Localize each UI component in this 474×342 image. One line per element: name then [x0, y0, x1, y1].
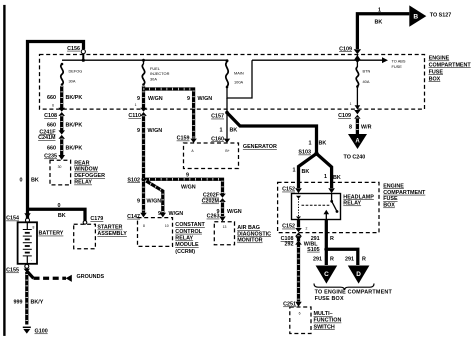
svg-text:C157: C157 [211, 114, 224, 120]
svg-text:STARTER: STARTER [97, 225, 122, 231]
svg-text:TO ABS: TO ABS [392, 58, 406, 63]
svg-text:TO S127: TO S127 [430, 13, 451, 19]
label 291 R right [345, 257, 366, 263]
wire 9 W/GN hatched C110 to S102 [137, 116, 162, 179]
connector C109 top (bowtie at fuse box edge) [339, 46, 361, 59]
svg-text:C: C [324, 271, 329, 278]
svg-text:TO C240: TO C240 [344, 155, 366, 161]
svg-text:BOX: BOX [383, 203, 395, 209]
svg-text:W/GN: W/GN [227, 209, 242, 215]
svg-text:B+: B+ [225, 149, 229, 153]
svg-text:MONITOR: MONITOR [237, 238, 262, 244]
connector C157 (junction below fuse box) [211, 111, 229, 120]
svg-text:C160: C160 [211, 136, 224, 142]
svg-text:1: 1 [220, 127, 223, 133]
svg-text:S105: S105 [307, 247, 320, 253]
svg-text:CONTROL: CONTROL [175, 229, 202, 235]
rear window defogger relay (dashed box) [50, 160, 71, 185]
svg-text:R: R [330, 257, 334, 263]
svg-text:W/GN: W/GN [148, 128, 163, 134]
svg-text:GROUNDS: GROUNDS [77, 274, 105, 280]
svg-text:RELAY: RELAY [343, 201, 361, 207]
node S103 [298, 150, 318, 156]
svg-text:(CCRM): (CCRM) [175, 249, 195, 255]
label AIR BAG DIAGNOSTIC MONITOR [237, 225, 271, 244]
svg-text:BK/PK: BK/PK [66, 95, 83, 101]
triangle A TO C240 [344, 134, 368, 161]
connector C109 bottom (bowtie below fuse box) [338, 110, 360, 119]
svg-text:C109: C109 [338, 113, 351, 119]
svg-text:BK/PK: BK/PK [66, 122, 83, 128]
svg-text:0: 0 [20, 178, 23, 184]
brace under triangles [314, 284, 374, 291]
label ENGINE COMPARTMENT FUSE BOX (top right) [429, 56, 472, 83]
svg-text:C263: C263 [207, 214, 220, 220]
svg-text:W/BL: W/BL [304, 242, 318, 248]
svg-text:CONSTANT: CONSTANT [175, 222, 205, 228]
svg-text:W/GN: W/GN [147, 199, 162, 205]
node S105 [307, 247, 328, 253]
svg-text:REAR: REAR [74, 160, 89, 166]
svg-text:8: 8 [349, 124, 352, 130]
svg-text:C108: C108 [44, 113, 57, 119]
svg-text:30: 30 [58, 165, 62, 169]
svg-text:MAIN: MAIN [234, 71, 244, 76]
svg-text:BK: BK [375, 20, 383, 26]
svg-text:W/R: W/R [361, 124, 372, 130]
label MULTI-FUNCTION SWITCH [314, 311, 342, 330]
wire fuse box internal bus [62, 59, 227, 61]
svg-text:ASSEMBLY: ASSEMBLY [97, 231, 127, 237]
wire battery positive cable (0 BK) from battery to C156 [28, 42, 84, 220]
wire TO ABS FUSE arrow [357, 57, 405, 69]
fuse FUEL INJECTOR 30A [142, 59, 170, 86]
svg-text:BOX: BOX [429, 76, 441, 82]
svg-text:GENERATOR: GENERATOR [243, 144, 277, 150]
svg-text:100A: 100A [234, 80, 243, 85]
svg-text:13: 13 [223, 225, 227, 229]
fuse BTN 40A [350, 55, 371, 110]
svg-text:C202M: C202M [202, 199, 220, 205]
label STARTER ASSEMBLY [97, 225, 127, 238]
wire 999 BK/Y hatched to ground [14, 272, 44, 325]
svg-text:C241M: C241M [38, 135, 56, 141]
svg-text:9: 9 [137, 128, 140, 134]
svg-text:1: 1 [309, 140, 312, 146]
svg-text:C156: C156 [67, 46, 80, 52]
svg-text:MULTI–: MULTI– [314, 311, 333, 317]
svg-text:R: R [362, 257, 366, 263]
svg-text:-: - [31, 259, 32, 263]
ground G100 [23, 327, 48, 334]
wire 1 BK S103 left branch to relay coil [293, 154, 317, 194]
svg-text:C109: C109 [339, 46, 352, 52]
svg-text:RELAY: RELAY [175, 236, 193, 242]
connector C241F / C241M (inline bowtie) [38, 129, 65, 141]
svg-text:660: 660 [47, 146, 56, 152]
svg-text:C152: C152 [282, 224, 295, 230]
wire 9 W/GN hatched S102 to CCRM pin 8 [137, 179, 161, 217]
triangle D [348, 266, 370, 284]
svg-text:FUSE: FUSE [392, 64, 403, 69]
svg-text:10: 10 [165, 224, 169, 228]
svg-text:BK: BK [31, 178, 39, 184]
svg-text:WINDOW: WINDOW [74, 167, 99, 173]
headlamp relay (solid box) [292, 194, 341, 220]
svg-text:0: 0 [58, 203, 61, 209]
wire 9 W/GN hatched S102 to CCRM pin 10 [144, 179, 184, 217]
svg-text:DIAGNOSTIC: DIAGNOSTIC [237, 231, 271, 237]
svg-text:C154: C154 [6, 216, 19, 222]
wire 660 BK/PK hatched (defog fuse output) [47, 86, 82, 108]
svg-text:BK: BK [58, 213, 66, 219]
svg-text:30A: 30A [150, 77, 157, 82]
connector C155 [6, 264, 30, 273]
svg-text:292: 292 [285, 241, 294, 247]
engine compartment fuse box (top, dashed outline) [40, 55, 425, 110]
wire 8 W/R hatched [349, 118, 372, 135]
constant control relay module (dashed box) [138, 218, 173, 247]
starter assembly (dashed box) [74, 224, 96, 248]
connector C110 (bowtie at fuse box edge) [128, 108, 146, 119]
label 0 BK upper [20, 178, 39, 184]
svg-text:BK/PK: BK/PK [66, 146, 83, 152]
svg-text:BK: BK [230, 127, 238, 133]
engine compartment fuse box 2 (dashed outline) [278, 182, 379, 232]
label HEADLAMP RELAY [343, 194, 374, 206]
svg-text:C147: C147 [127, 214, 140, 220]
fuse DEFOG 30A [61, 63, 83, 86]
node S102 [127, 177, 145, 183]
svg-text:FUSE BOX: FUSE BOX [315, 296, 344, 302]
svg-text:INJECTOR: INJECTOR [150, 71, 170, 76]
svg-text:AIR BAG: AIR BAG [237, 225, 260, 231]
svg-text:660: 660 [47, 95, 56, 101]
svg-text:291: 291 [313, 257, 322, 263]
svg-text:BK: BK [302, 169, 310, 175]
svg-text:RELAY: RELAY [74, 180, 92, 186]
connector C108 (bowtie at fuse box edge) [44, 108, 65, 119]
page frame left border [3, 5, 5, 336]
wire thick 1 BK C157 to S103 [227, 113, 326, 152]
air bag diagnostic monitor (dashed box) [214, 222, 234, 245]
svg-text:8: 8 [33, 225, 35, 229]
connector C159 entry arrow [177, 136, 197, 143]
svg-text:660: 660 [47, 122, 56, 128]
svg-text:9: 9 [186, 172, 189, 178]
svg-text:C235: C235 [44, 154, 57, 160]
wire 9 W/GN hatched C202 to air bag monitor [217, 202, 242, 216]
svg-text:1: 1 [350, 102, 352, 106]
svg-text:BK/Y: BK/Y [31, 300, 44, 306]
battery box [18, 222, 37, 263]
svg-text:D: D [356, 271, 361, 278]
node bus junction at C156 [82, 59, 85, 62]
svg-text:BATTERY: BATTERY [39, 231, 64, 237]
wire thick 291 R branch to triangle D [326, 249, 358, 265]
svg-text:9: 9 [137, 96, 140, 102]
wire thick 291 R relay output [311, 220, 334, 266]
svg-text:COMPARTMENT: COMPARTMENT [383, 190, 426, 196]
svg-text:BTN: BTN [363, 69, 371, 74]
svg-text:S103: S103 [298, 150, 311, 156]
svg-text:W/GN: W/GN [148, 96, 163, 102]
connector C156 [67, 46, 85, 59]
svg-text:W/GN: W/GN [198, 96, 213, 102]
label REAR WINDOW DEFOGGER RELAY [74, 160, 105, 185]
wire 292 W/BL hatched from relay coil [281, 220, 319, 302]
wire 1 BK thin C157 to generator B+ [220, 98, 238, 139]
svg-text:999: 999 [14, 300, 23, 306]
svg-text:9: 9 [137, 199, 140, 205]
svg-text:1: 1 [293, 167, 296, 173]
svg-text:MODULE: MODULE [175, 242, 199, 248]
svg-text:2: 2 [306, 227, 308, 231]
connector C202F / C202M (inline bowtie) [202, 193, 226, 205]
svg-text:C159: C159 [177, 136, 190, 142]
svg-text:ENGINE: ENGINE [429, 56, 450, 62]
svg-text:C152: C152 [282, 187, 295, 193]
svg-text:DEFOGGER: DEFOGGER [74, 173, 105, 179]
connector C263 entry arrow [207, 214, 226, 222]
wire thick 0 BK branch battery to starter [28, 203, 87, 224]
svg-text:ENGINE: ENGINE [383, 183, 404, 189]
svg-text:W/GN: W/GN [181, 184, 196, 190]
wire 660 BK/PK hatched segment 3 [47, 139, 82, 155]
svg-text:S102: S102 [127, 177, 140, 183]
svg-text:FUSE: FUSE [429, 69, 444, 75]
svg-text:40A: 40A [363, 79, 370, 84]
generator (dashed box) [184, 143, 239, 169]
svg-text:FUSE: FUSE [383, 196, 398, 202]
svg-text:FUNCTION: FUNCTION [314, 318, 342, 324]
wire 9 W/GN hatched S102 to C202 [144, 172, 223, 194]
wire 1 BK S103 right branch to relay contact [317, 154, 341, 194]
svg-text:291: 291 [345, 257, 354, 263]
connector C160 entry arrow [211, 136, 230, 143]
svg-text:6: 6 [52, 103, 54, 107]
triangle C [316, 266, 338, 284]
connector C152 bottom (bowtie at fuse box edge) [282, 224, 307, 237]
svg-text:COMPARTMENT: COMPARTMENT [429, 62, 472, 68]
connector C251 entry arrow [283, 302, 302, 308]
svg-text:HEADLAMP: HEADLAMP [343, 194, 374, 200]
label TO ENGINE COMPARTMENT FUSE BOX [315, 290, 393, 302]
svg-text:A: A [355, 139, 360, 145]
svg-text:BK: BK [333, 175, 341, 181]
wire grounds branch (dashed) [27, 271, 105, 282]
svg-text:B: B [413, 13, 418, 20]
svg-text:30A: 30A [69, 79, 76, 84]
svg-text:R: R [330, 236, 334, 242]
label 291 R left [313, 257, 334, 263]
wire 660 BK/PK hatched segment 2 [47, 116, 82, 131]
svg-text:W/GN: W/GN [169, 211, 184, 217]
svg-text:6: 6 [299, 312, 301, 316]
fuse MAIN 100A [226, 59, 244, 88]
svg-text:C110: C110 [128, 113, 141, 119]
svg-text:DEFOG: DEFOG [69, 69, 83, 74]
svg-text:G100: G100 [35, 329, 48, 335]
svg-text:C179: C179 [90, 216, 103, 222]
wire thick BK to S127 with triangle B [357, 5, 451, 49]
svg-text:9: 9 [187, 96, 190, 102]
svg-text:8: 8 [143, 224, 145, 228]
svg-text:C155: C155 [6, 268, 19, 274]
svg-text:TO ENGINE COMPARTMENT: TO ENGINE COMPARTMENT [315, 290, 393, 296]
label CONSTANT CONTROL RELAY MODULE (CCRM) [175, 222, 205, 255]
svg-text:SWITCH: SWITCH [314, 324, 335, 330]
svg-text:1: 1 [378, 8, 381, 14]
svg-text:BK: BK [319, 140, 327, 146]
wire 9 W/GN hatched from fuel injector fuse [135, 86, 213, 139]
connector C154 [6, 213, 31, 222]
svg-text:1: 1 [324, 174, 327, 180]
multi-function switch (dashed box) [290, 307, 311, 334]
label ENGINE COMPARTMENT FUSE BOX (second) [383, 183, 426, 208]
svg-text:1: 1 [135, 103, 137, 107]
connector C235 entry arrow [44, 154, 65, 161]
